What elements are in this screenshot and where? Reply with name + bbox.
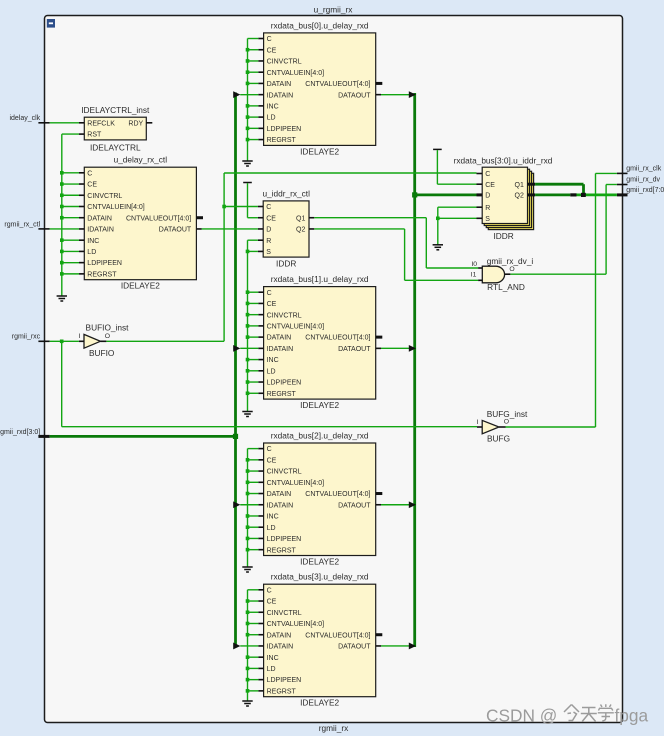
svg-text:CNTVALUEIN[4:0]: CNTVALUEIN[4:0] [87,204,144,211]
svg-text:REGRST: REGRST [267,688,297,695]
svg-text:IDELAYE2: IDELAYE2 [300,400,339,410]
svg-text:C: C [266,204,271,211]
svg-text:REGRST: REGRST [87,271,117,278]
svg-text:LD: LD [267,525,276,532]
svg-text:IDELAYE2: IDELAYE2 [300,557,339,567]
svg-text:idelay_clk: idelay_clk [9,115,40,122]
svg-text:DATAOUT: DATAOUT [338,644,371,651]
svg-text:CE: CE [266,215,276,222]
svg-text:CINVCTRL: CINVCTRL [267,312,302,319]
svg-text:INC: INC [87,238,99,245]
svg-text:INC: INC [267,103,279,110]
svg-text:RTL_AND: RTL_AND [487,282,525,292]
svg-text:LDPIPEEN: LDPIPEEN [87,260,122,267]
svg-text:gmii_rxd[7:0]: gmii_rxd[7:0] [626,187,664,194]
svg-text:D: D [485,193,490,200]
svg-text:IDDR: IDDR [276,259,296,269]
svg-text:CE: CE [485,182,495,189]
svg-text:LDPIPEEN: LDPIPEEN [267,126,302,133]
svg-text:u_iddr_rx_ctl: u_iddr_rx_ctl [262,188,310,198]
svg-text:CSDN @: CSDN @ [486,706,557,726]
svg-text:DATAOUT: DATAOUT [159,227,192,234]
svg-text:C: C [267,290,272,297]
svg-text:gmii_rx_clk: gmii_rx_clk [626,165,662,172]
svg-text:R: R [485,205,490,212]
svg-text:DATAIN: DATAIN [267,491,292,498]
svg-text:LD: LD [87,249,96,256]
svg-text:rxdata_bus[0].u_delay_rxd: rxdata_bus[0].u_delay_rxd [271,20,369,30]
svg-text:S: S [485,216,490,223]
svg-text:DATAIN: DATAIN [267,632,292,639]
svg-text:u_delay_rx_ctl: u_delay_rx_ctl [114,155,168,165]
svg-text:CNTVALUEOUT[4:0]: CNTVALUEOUT[4:0] [305,81,370,88]
svg-text:IDELAYE2: IDELAYE2 [300,698,339,708]
svg-text:rxdata_bus[3].u_delay_rxd: rxdata_bus[3].u_delay_rxd [271,572,369,582]
svg-text:O: O [504,419,509,426]
svg-text:IDATAIN: IDATAIN [267,502,294,509]
svg-text:O: O [509,266,514,273]
svg-text:O: O [105,333,110,340]
svg-text:R: R [266,238,271,245]
svg-text:C: C [267,587,272,594]
svg-text:BUFG: BUFG [487,434,510,444]
svg-text:LD: LD [267,368,276,375]
svg-text:RDY: RDY [128,120,143,127]
svg-text:IDELAYCTRL: IDELAYCTRL [90,142,141,152]
svg-text:CINVCTRL: CINVCTRL [87,193,122,200]
svg-text:LDPIPEEN: LDPIPEEN [267,380,302,387]
svg-text:C: C [87,170,92,177]
svg-text:gmii_rx_dv_i: gmii_rx_dv_i [487,256,534,266]
svg-text:BUFG_inst: BUFG_inst [487,409,528,419]
svg-text:INC: INC [267,357,279,364]
svg-text:CNTVALUEOUT[4:0]: CNTVALUEOUT[4:0] [305,335,370,342]
svg-text:LD: LD [267,115,276,122]
svg-text:REGRST: REGRST [267,547,297,554]
svg-text:CINVCTRL: CINVCTRL [267,59,302,66]
svg-text:CINVCTRL: CINVCTRL [267,610,302,617]
svg-text:IDATAIN: IDATAIN [267,346,294,353]
svg-text:CE: CE [267,47,277,54]
svg-text:CNTVALUEIN[4:0]: CNTVALUEIN[4:0] [267,480,324,487]
svg-text:IDATAIN: IDATAIN [267,644,294,651]
svg-text:INC: INC [267,514,279,521]
svg-text:CNTVALUEOUT[4:0]: CNTVALUEOUT[4:0] [305,491,370,498]
svg-text:DATAOUT: DATAOUT [338,502,371,509]
svg-text:IDELAYE2: IDELAYE2 [300,146,339,156]
svg-text:rgmii_rxd[3:0]: rgmii_rxd[3:0] [0,429,40,436]
svg-text:rxdata_bus[3:0].u_iddr_rxd: rxdata_bus[3:0].u_iddr_rxd [454,156,553,166]
svg-text:C: C [267,446,272,453]
svg-text:REFCLK: REFCLK [87,120,115,127]
svg-text:IDDR: IDDR [493,231,513,241]
svg-text:BUFIO: BUFIO [89,348,115,358]
svg-text:DATAIN: DATAIN [87,215,112,222]
svg-text:Q1: Q1 [515,182,524,189]
svg-text:CINVCTRL: CINVCTRL [267,469,302,476]
svg-text:IDATAIN: IDATAIN [87,227,114,234]
svg-text:IDELAYCTRL_inst: IDELAYCTRL_inst [81,105,150,115]
svg-text:CNTVALUEIN[4:0]: CNTVALUEIN[4:0] [267,621,324,628]
svg-text:C: C [267,36,272,43]
svg-text:Q2: Q2 [515,193,524,200]
svg-text:CNTVALUEIN[4:0]: CNTVALUEIN[4:0] [267,70,324,77]
svg-text:IDELAYE2: IDELAYE2 [121,281,160,291]
svg-text:CNTVALUEOUT[4:0]: CNTVALUEOUT[4:0] [126,215,191,222]
svg-text:rgmii_rx_ctl: rgmii_rx_ctl [4,221,40,228]
svg-text:RST: RST [87,132,102,139]
svg-text:CNTVALUEIN[4:0]: CNTVALUEIN[4:0] [267,323,324,330]
svg-text:LDPIPEEN: LDPIPEEN [267,677,302,684]
svg-text:DATAOUT: DATAOUT [338,346,371,353]
svg-text:gmii_rx_dv: gmii_rx_dv [626,177,660,184]
svg-text:I: I [78,333,80,340]
svg-text:DATAIN: DATAIN [267,335,292,342]
svg-text:CE: CE [267,301,277,308]
svg-text:Q1: Q1 [296,215,305,222]
svg-text:CE: CE [87,182,97,189]
svg-text:CNTVALUEOUT[4:0]: CNTVALUEOUT[4:0] [305,632,370,639]
svg-text:fpga: fpga [615,706,649,726]
svg-text:IDATAIN: IDATAIN [267,92,294,99]
svg-text:REGRST: REGRST [267,137,297,144]
svg-text:Q2: Q2 [296,227,305,234]
svg-text:I1: I1 [471,272,477,279]
svg-text:DATAIN: DATAIN [267,81,292,88]
svg-text:LDPIPEEN: LDPIPEEN [267,536,302,543]
svg-text:BUFIO_inst: BUFIO_inst [86,323,130,333]
svg-text:u_rgmii_rx: u_rgmii_rx [314,4,354,14]
svg-text:CE: CE [267,599,277,606]
svg-text:DATAOUT: DATAOUT [338,92,371,99]
svg-text:REGRST: REGRST [267,391,297,398]
svg-text:I0: I0 [471,261,477,268]
svg-text:INC: INC [267,655,279,662]
svg-text:CE: CE [267,457,277,464]
svg-text:D: D [266,227,271,234]
svg-text:LD: LD [267,666,276,673]
svg-text:S: S [266,249,271,256]
svg-text:I: I [476,419,478,426]
svg-text:rgmii_rxc: rgmii_rxc [12,334,41,341]
svg-text:C: C [485,171,490,178]
svg-text:rxdata_bus[2].u_delay_rxd: rxdata_bus[2].u_delay_rxd [271,431,369,441]
svg-text:rgmii_rx: rgmii_rx [319,723,349,733]
svg-text:rxdata_bus[1].u_delay_rxd: rxdata_bus[1].u_delay_rxd [271,274,369,284]
